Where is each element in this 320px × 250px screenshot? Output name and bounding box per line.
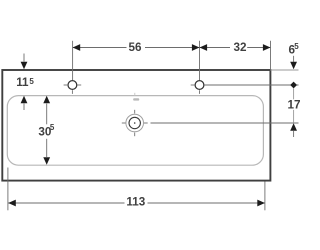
svg-text:5: 5 (294, 42, 299, 51)
svg-text:32: 32 (233, 41, 247, 54)
svg-text:56: 56 (128, 41, 142, 54)
svg-text:17: 17 (287, 98, 300, 111)
svg-text:5: 5 (29, 77, 34, 86)
svg-text:11: 11 (16, 76, 29, 89)
svg-text:5: 5 (50, 123, 55, 132)
svg-text:113: 113 (126, 196, 145, 209)
